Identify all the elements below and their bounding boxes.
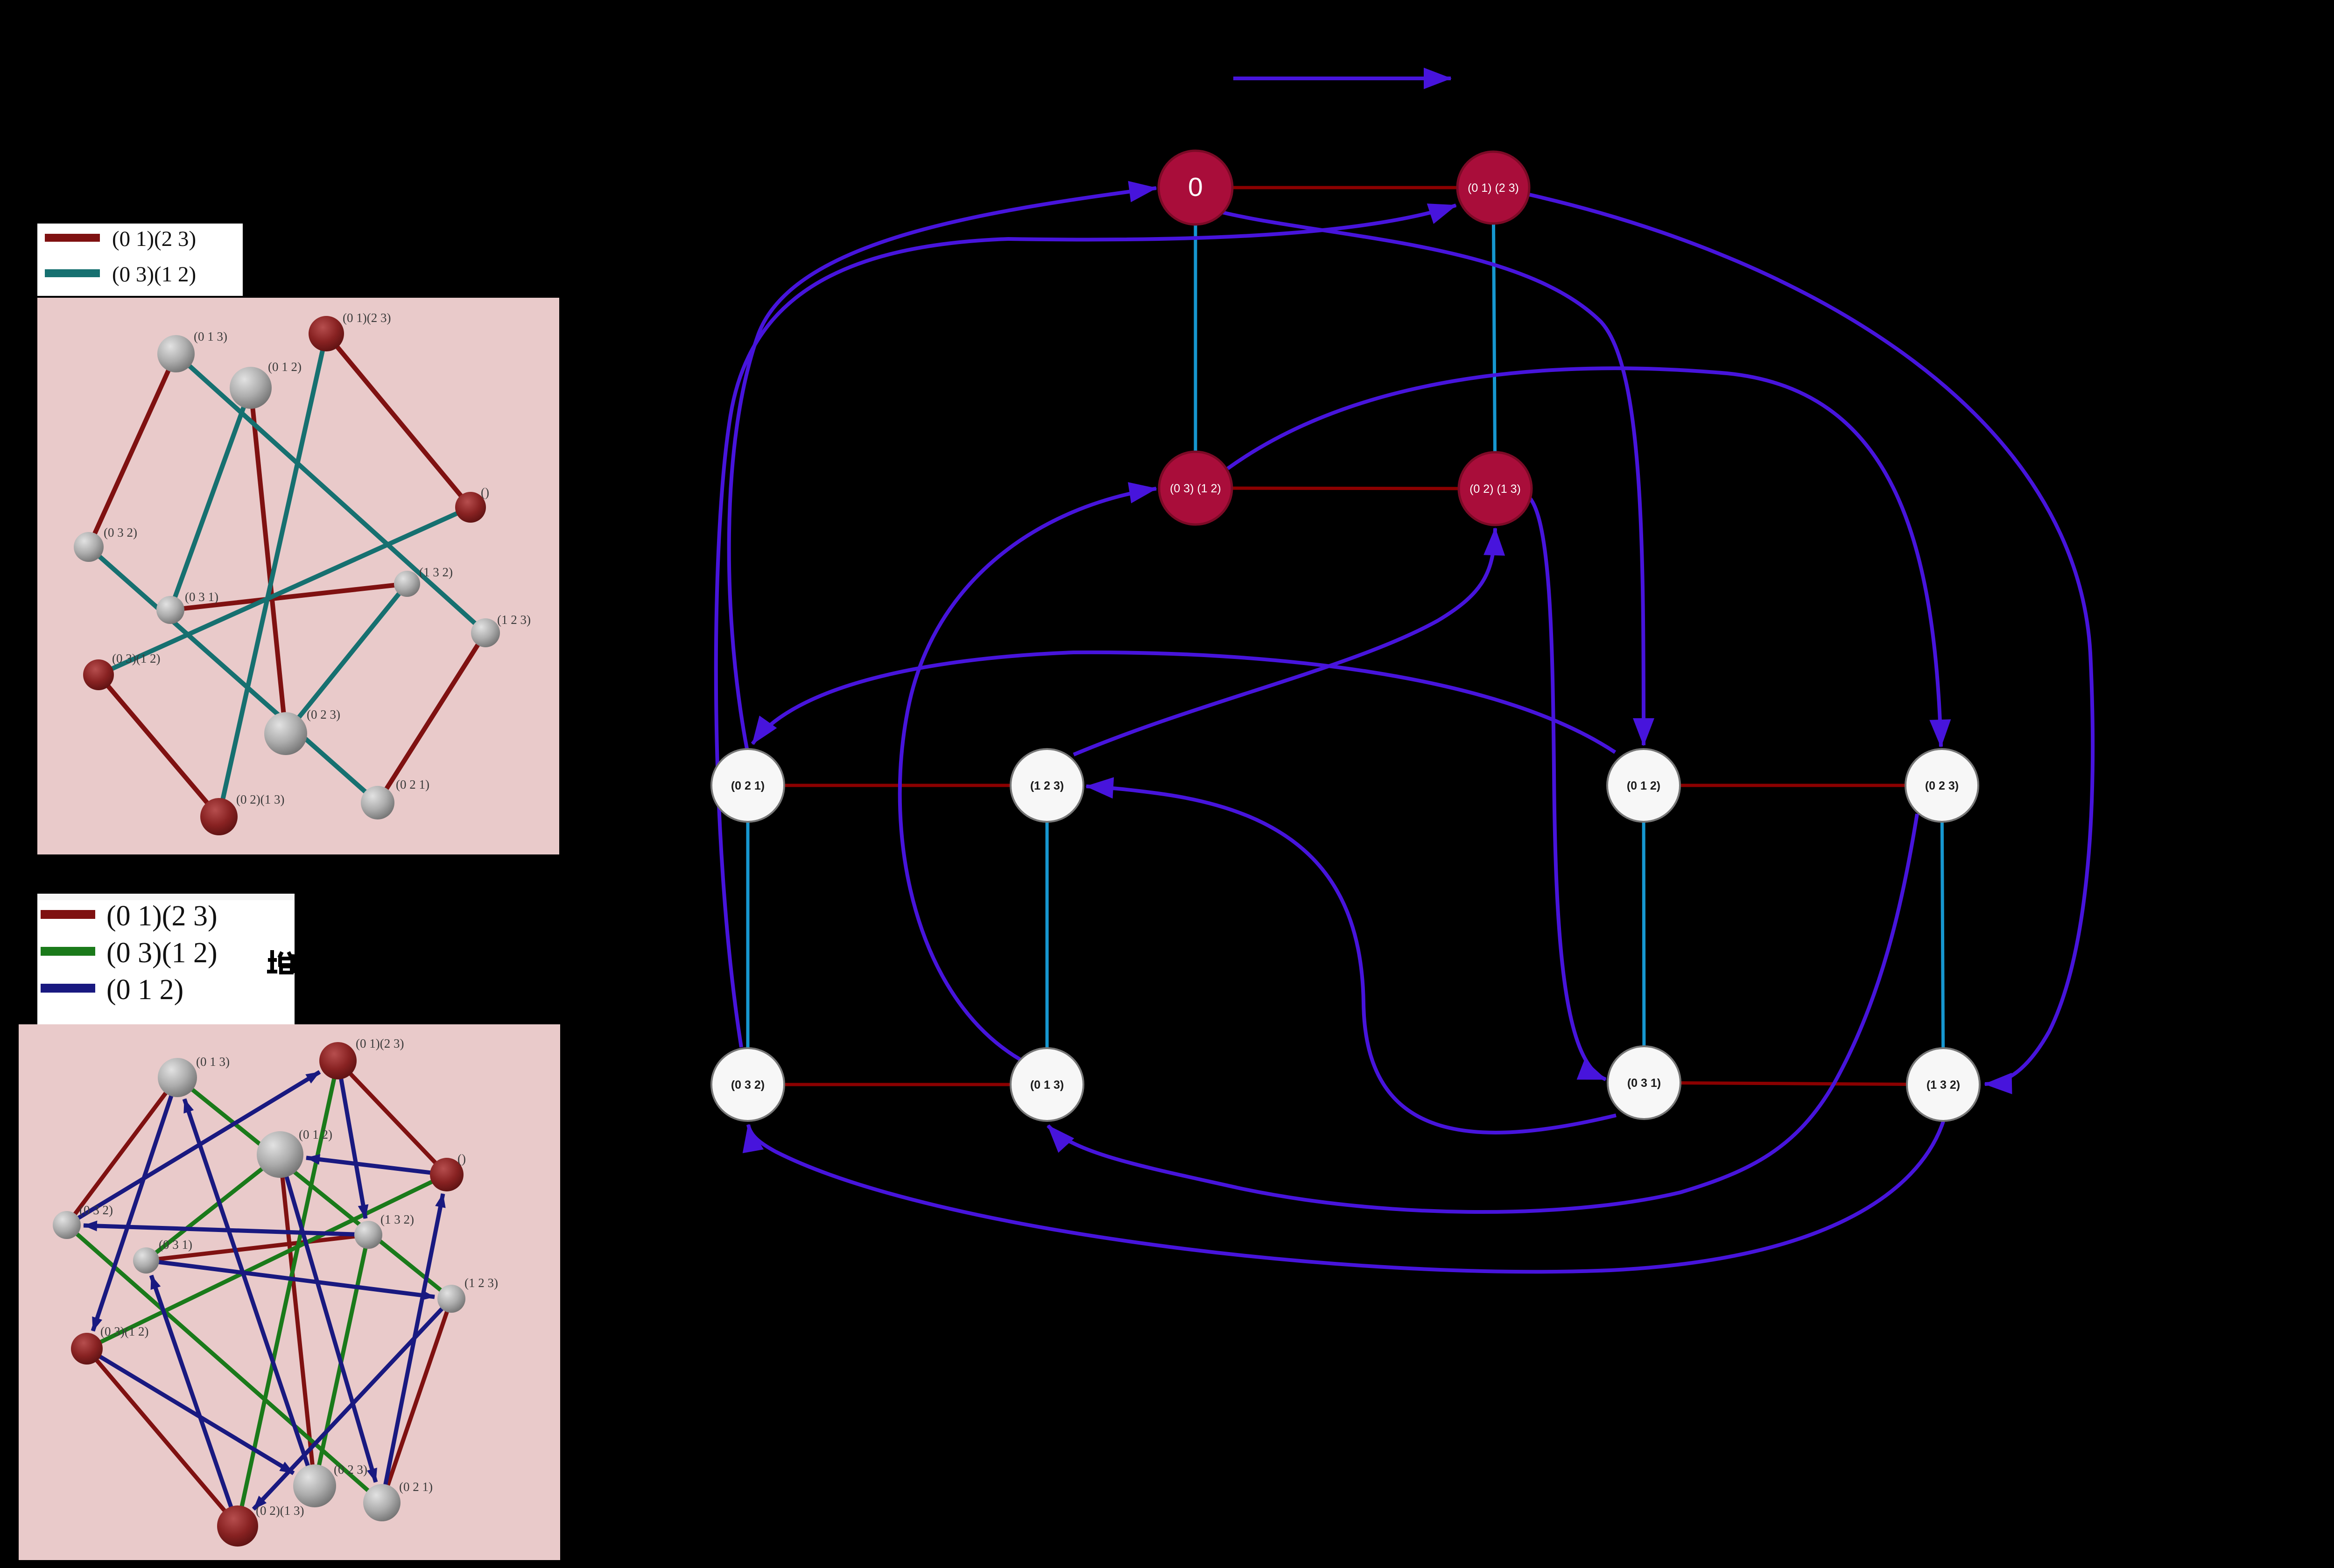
panel2 navy arrow (0 1)(2 3) to (1 3 2)	[338, 1061, 366, 1218]
svg-text:(0 1 2): (0 1 2)	[268, 360, 302, 374]
svg-text:(0 1 2): (0 1 2)	[299, 1127, 332, 1141]
panel1 teal edge ()-(0 3)(1 2)	[98, 507, 471, 675]
panel2 navy arrow () to (0 1 2)	[306, 1158, 447, 1175]
svg-text:(0 1)(2 3): (0 1)(2 3)	[112, 227, 196, 251]
left-graph node (0 2)(1 3)	[1459, 452, 1532, 525]
panel2 navy arrow (0 3 2) to (0 1)(2 3)	[67, 1072, 320, 1225]
chinese annotation glyph	[267, 950, 294, 973]
left-graph cyan edge ()-(0 3)(1 2)	[1194, 188, 1197, 488]
left-graph purple arrow (0 1 2) to (0 2 1)	[752, 652, 1615, 752]
svg-text:(0 2 3): (0 2 3)	[1925, 779, 1959, 792]
svg-text:(0 1) (2 3): (0 1) (2 3)	[1468, 182, 1519, 195]
panel2 red edge ()-(0 1)(2 3)	[338, 1061, 447, 1175]
top transition arrow	[1233, 77, 1451, 80]
svg-text:(0 1 3): (0 1 3)	[196, 1055, 230, 1069]
panel1 red edge (0 2 1)-(1 2 3)	[378, 633, 485, 803]
panel2 sphere (0 3 2)	[53, 1211, 81, 1239]
svg-text:(0 1)(2 3): (0 1)(2 3)	[343, 311, 391, 325]
panel2 sphere ()	[430, 1158, 464, 1191]
panel1 red edge (0 3 1)-(1 3 2)	[170, 584, 407, 610]
panel1 sphere (0 2 3)	[264, 712, 307, 755]
panel2 navy arrow (0 1 3) to (0 3)(1 2)	[93, 1078, 177, 1331]
pink panel 2	[19, 1024, 560, 1560]
left-graph cyan edge (0 2 3)-(1 3 2)	[1942, 785, 1943, 1085]
panel1 teal edge (0 2 3)-(1 3 2)	[286, 584, 407, 734]
panel2 navy arrow (1 3 2) to (0 3 2)	[84, 1225, 368, 1235]
svg-text:(1 3 2): (1 3 2)	[1926, 1078, 1960, 1092]
panel2 green edge (0 2 3)-(1 3 2)	[315, 1235, 368, 1486]
panel2 red edge (0 3 2)-(0 1 3)	[67, 1078, 177, 1225]
left-graph node (1 2 3)	[1011, 749, 1083, 822]
svg-text:(0 3)(1 2): (0 3)(1 2)	[100, 1324, 148, 1338]
legend 2 navy swatch	[41, 984, 95, 993]
left-graph red edge (0 1 2)-(0 2 3)	[1644, 784, 1942, 787]
svg-text:(0 2)(1 3): (0 2)(1 3)	[256, 1504, 304, 1518]
svg-text:(1 2 3): (1 2 3)	[1030, 779, 1064, 792]
panel1 teal edge (0 1)(2 3)-(0 2)(1 3)	[219, 334, 326, 817]
panel2 red edge (0 3)(1 2)-(0 2)(1 3)	[87, 1349, 238, 1526]
panel1 sphere (1 3 2)	[394, 571, 420, 597]
left-graph node (0 3 2)	[711, 1048, 784, 1121]
left-graph cyan edge (1 2 3)-(0 1 3)	[1046, 785, 1049, 1085]
legend 2 green swatch	[41, 947, 95, 956]
left-graph purple arrow (0 2 1) to ()	[729, 188, 1156, 749]
panel2 navy arrow (0 3)(1 2) to (0 2 3)	[87, 1349, 294, 1473]
panel2 sphere (0 1 3)	[158, 1058, 197, 1097]
svg-text:(0 1 2): (0 1 2)	[106, 974, 183, 1006]
pink panel 1	[37, 298, 559, 854]
left-graph node (0 1)(2 3)	[1457, 152, 1529, 224]
panel1 teal edge (0 2 1)-(0 3 2)	[89, 547, 378, 803]
left-graph node (0 2 1)	[711, 749, 784, 822]
left-graph node (1 3 2)	[1907, 1048, 1980, 1121]
left-graph purple arrow (0 1)(2 3) to (1 3 2)	[1529, 195, 2093, 1084]
svg-text:(0 1)(2 3): (0 1)(2 3)	[356, 1036, 404, 1050]
svg-text:(1 2 3): (1 2 3)	[497, 613, 531, 627]
panel1 sphere (0 2 1)	[361, 786, 394, 819]
svg-text:(0 2 3): (0 2 3)	[334, 1463, 367, 1477]
panel2 red edge (0 3 1)-(1 3 2)	[146, 1235, 368, 1260]
svg-text:(0 1 3): (0 1 3)	[194, 329, 227, 343]
panel2 navy arrow (0 1 2) to (0 2 1)	[280, 1155, 376, 1482]
left-graph purple arrow (1 3 2) to (0 3 2)	[748, 1121, 1943, 1272]
left-graph red edge (0 3)(1 2)-(0 2)(1 3)	[1195, 488, 1495, 489]
panel2 sphere (0 3)(1 2)	[71, 1333, 103, 1365]
svg-text:(): ()	[481, 485, 489, 499]
left-graph purple arrow () to (0 1 2)	[1222, 212, 1644, 745]
svg-text:(0 3)(1 2): (0 3)(1 2)	[106, 937, 218, 969]
panel1 sphere (0 2)(1 3)	[200, 798, 238, 835]
left-graph node (0 3)(1 2)	[1159, 452, 1232, 525]
svg-text:(0 3 2): (0 3 2)	[104, 525, 137, 539]
left-graph purple arrow (0 3 2) to (0 1)(2 3)	[716, 205, 1456, 1047]
svg-text:(1 3 2): (1 3 2)	[380, 1212, 414, 1226]
panel2 green edge (0 2 1)-(0 3 2)	[67, 1225, 382, 1503]
svg-text:(0 2 1): (0 2 1)	[396, 777, 429, 791]
left-graph purple arrow (0 2)(1 3) to (0 3 1)	[1527, 496, 1606, 1079]
left-graph red edge ()-(0 1)(2 3)	[1195, 186, 1493, 189]
svg-text:(0 2 3): (0 2 3)	[307, 707, 340, 721]
svg-text:(1 3 2): (1 3 2)	[419, 565, 453, 579]
panel2 sphere (1 2 3)	[437, 1285, 465, 1313]
panel1 sphere (0 1)(2 3)	[309, 316, 344, 351]
left-graph purple arrow (0 3 1) to (1 2 3)	[1086, 786, 1616, 1133]
panel2 navy arrow (0 2)(1 3) to (0 3 1)	[151, 1275, 238, 1526]
legend 1 red swatch (0 1)(2 3)	[45, 234, 100, 242]
svg-text:(0 3 2): (0 3 2)	[79, 1203, 113, 1217]
legend 2 red swatch	[41, 910, 95, 919]
svg-text:(0 2 1): (0 2 1)	[731, 779, 765, 792]
svg-text:(0 1 2): (0 1 2)	[1627, 779, 1660, 792]
panel2 green edge (0 1)(2 3)-(0 2)(1 3)	[238, 1061, 338, 1526]
panel1 sphere (0 3)(1 2)	[83, 659, 114, 690]
panel2 red edge (0 1 2)-(0 2 3)	[280, 1155, 315, 1486]
left-graph purple arrow (0 2 3) to (0 1 3)	[1048, 814, 1917, 1212]
left-graph node ()	[1159, 151, 1232, 224]
left-graph purple arrow (1 2 3) to (0 2)(1 3)	[1074, 528, 1495, 755]
left-graph purple arrow (0 1 3) to (0 3)(1 2)	[900, 489, 1156, 1059]
panel2 navy arrow (1 2 3) to (0 2)(1 3)	[253, 1299, 451, 1509]
left-graph node (0 1 3)	[1011, 1048, 1083, 1121]
left-graph node (0 1 2)	[1607, 749, 1680, 822]
panel2 navy arrow (0 3 1) to (1 2 3)	[146, 1260, 435, 1297]
svg-text:(0 3 1): (0 3 1)	[185, 590, 218, 604]
left-graph red edge (0 2 1)-(1 2 3)	[748, 784, 1047, 787]
svg-text:(): ()	[457, 1152, 466, 1166]
panel2 green edge (1 2 3)-(0 1 3)	[177, 1078, 451, 1299]
svg-text:(0 2 1): (0 2 1)	[399, 1480, 433, 1494]
panel1 sphere ()	[455, 492, 486, 523]
panel1 sphere (0 1 3)	[157, 335, 195, 372]
panel2 navy arrow (0 2 3) to (0 1 3)	[184, 1099, 315, 1486]
left-graph red edge (0 3 2)-(0 1 3)	[748, 1083, 1047, 1086]
svg-text:(0 1)(2 3): (0 1)(2 3)	[106, 900, 218, 932]
svg-text:(0 3)(1 2): (0 3)(1 2)	[112, 651, 160, 665]
svg-text:0: 0	[1188, 172, 1203, 202]
left-graph node (0 2 3)	[1905, 749, 1978, 822]
panel1 teal edge (1 2 3)-(0 1 3)	[176, 354, 485, 633]
legend 1 box	[37, 224, 243, 296]
panel1 sphere (1 2 3)	[471, 618, 500, 647]
panel1 teal edge (0 1 2)-(0 3 1)	[170, 388, 251, 610]
panel2 sphere (0 2 3)	[293, 1464, 336, 1507]
left-graph red edge (0 3 1)-(1 3 2)	[1644, 1083, 1943, 1085]
panel2 sphere (0 1 2)	[257, 1131, 303, 1178]
panel2 sphere (0 2 1)	[363, 1484, 401, 1521]
legend 2 box	[37, 894, 295, 1026]
svg-text:(0 2) (1 3): (0 2) (1 3)	[1469, 483, 1521, 496]
panel2 green edge (0 1 2)-(0 3 1)	[146, 1155, 280, 1260]
left-graph cyan edge (0 1)(2 3)-(0 2)(1 3)	[1493, 188, 1495, 489]
panel1 red edge ()-(0 1)(2 3)	[326, 334, 471, 507]
svg-text:(0 3 2): (0 3 2)	[731, 1078, 765, 1092]
svg-text:(0 3) (1 2): (0 3) (1 2)	[1170, 482, 1221, 495]
panel2 sphere (0 3 1)	[133, 1247, 159, 1274]
left-graph cyan edge (0 2 1)-(0 3 2)	[746, 785, 750, 1085]
svg-text:(0 3)(1 2): (0 3)(1 2)	[112, 262, 196, 287]
left-graph node (0 3 1)	[1608, 1046, 1680, 1119]
left-graph purple arrow (0 3)(1 2) to (0 2 3)	[1228, 368, 1941, 747]
panel1 sphere (0 3 2)	[74, 532, 104, 562]
panel2 sphere (1 3 2)	[354, 1221, 382, 1249]
svg-text:(0 2)(1 3): (0 2)(1 3)	[236, 792, 284, 806]
panel1 red edge (0 1 2)-(0 2 3)	[251, 388, 286, 734]
panel2 red edge (0 2 1)-(1 2 3)	[382, 1299, 451, 1503]
panel2 sphere (0 2)(1 3)	[217, 1505, 258, 1547]
left-graph cyan edge (0 1 2)-(0 3 1)	[1644, 785, 1644, 1083]
panel1 red edge (0 3)(1 2)-(0 2)(1 3)	[98, 675, 219, 817]
legend 1 teal swatch (0 3)(1 2)	[45, 269, 100, 277]
panel2 navy arrow (0 2 1) to ()	[382, 1194, 443, 1503]
svg-text:(0 1 3): (0 1 3)	[1030, 1078, 1064, 1092]
panel1 red edge (0 3 2)-(0 1 3)	[89, 354, 176, 547]
panel2 sphere (0 1)(2 3)	[319, 1042, 357, 1079]
svg-text:(1 2 3): (1 2 3)	[464, 1276, 498, 1290]
panel1 sphere (0 1 2)	[230, 367, 272, 409]
panel2 green edge ()-(0 3)(1 2)	[87, 1175, 447, 1349]
panel1 sphere (0 3 1)	[156, 596, 184, 624]
svg-text:(0 3 1): (0 3 1)	[159, 1238, 192, 1252]
svg-text:(0 3 1): (0 3 1)	[1627, 1077, 1661, 1090]
